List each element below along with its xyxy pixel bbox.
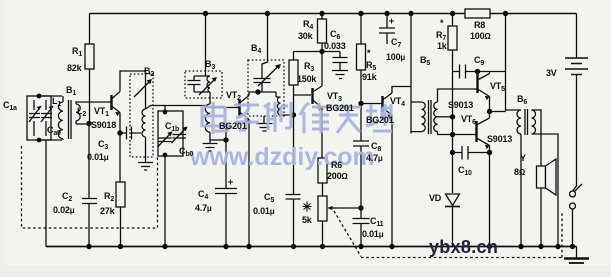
svg-text:0.01μ: 0.01μ <box>87 152 109 162</box>
svg-text:B3: B3 <box>205 59 215 71</box>
svg-text:8Ω: 8Ω <box>514 167 526 177</box>
transformer B6 primary winding <box>506 110 522 134</box>
svg-text:C10: C10 <box>458 165 472 177</box>
node C5 ground dot <box>291 244 296 249</box>
capacitor C5 0.01u <box>286 188 301 247</box>
node secondary return ground dot <box>555 244 560 249</box>
inductor B3 lower winding <box>205 104 210 140</box>
node speaker ground dot <box>538 244 543 249</box>
transformer B3 IF shield (dashed) <box>185 71 222 98</box>
transistor VT3 BG201 <box>313 86 323 111</box>
wire B5 secondary center tap <box>438 116 453 118</box>
node top rail dot B4 feed <box>265 11 270 16</box>
transformer B1 core <box>69 100 72 139</box>
transistor VT6 S9013 <box>477 118 490 149</box>
wire VT3 emitter down to R6 <box>321 108 323 159</box>
svg-text:200Ω: 200Ω <box>327 171 348 181</box>
wire rail down to B6 <box>505 14 507 112</box>
node B4 to R3 column dot <box>291 112 296 117</box>
node VD center-tap dot <box>450 114 455 119</box>
dashed gang link C1a-C1b <box>22 146 158 228</box>
node emitter/C3 junction dot <box>117 130 122 135</box>
svg-text:*: * <box>440 18 444 28</box>
wire rail down into B3 <box>205 14 207 77</box>
inductor B4 winding <box>276 92 294 115</box>
transistor VT1 S9018 <box>112 92 121 117</box>
wire B3 bottom to C4 node <box>210 139 226 141</box>
node C10 left dot <box>450 150 455 155</box>
wire tank bottom down to ground rail (left end) <box>45 140 47 247</box>
svg-text:BG201: BG201 <box>366 115 394 125</box>
ground below C6 <box>332 71 348 79</box>
svg-text:4.7μ: 4.7μ <box>366 153 383 163</box>
svg-text:L1: L1 <box>52 96 61 108</box>
svg-text:S9018: S9018 <box>91 120 116 130</box>
node R4 bottom dot <box>319 49 324 54</box>
node output node dot <box>487 109 492 114</box>
node top rail dot C7 feed <box>384 11 389 16</box>
node switch ground dot <box>570 244 575 249</box>
transformer B5 primary winding <box>411 102 425 132</box>
node C9/VT5 base dot <box>475 69 480 74</box>
wire R3 column down to C5 <box>293 115 295 188</box>
capacitor Ca0 trimmer <box>41 100 53 136</box>
svg-text:5k: 5k <box>302 215 313 225</box>
node VT6 emitter ground dot <box>487 244 492 249</box>
node C4 junction dot <box>223 137 228 142</box>
node C10 right dot <box>487 150 492 155</box>
resistor R2 27k <box>116 182 125 247</box>
resistor R4 30k <box>318 14 327 87</box>
wire VT1 emitter down <box>119 113 121 134</box>
wire VT5 collector join feed line <box>489 72 491 74</box>
svg-text:91k: 91k <box>362 72 378 82</box>
capacitor C11 0.01u <box>353 208 370 247</box>
svg-text:R3: R3 <box>304 61 314 73</box>
node VT4 emitter ground dot <box>389 244 394 249</box>
transformer B5 core <box>429 100 432 134</box>
potentiometer 5k <box>318 196 361 247</box>
inductor B2 winding <box>142 109 146 162</box>
wire bottom ground rail <box>46 246 577 248</box>
ground symbol bottom right <box>564 247 589 264</box>
svg-text:C1b: C1b <box>165 121 179 133</box>
svg-text:*: * <box>367 48 371 58</box>
node tank top dot <box>37 94 42 99</box>
resistor R3 150k <box>289 52 298 116</box>
svg-text:C4: C4 <box>198 189 208 201</box>
node wiper junction dot <box>358 205 363 210</box>
TEXT-LAYER <box>3 18 557 257</box>
capacitor C9 <box>453 65 506 79</box>
wire node to VT4 base <box>361 103 382 105</box>
node top rail dot R7 feed <box>450 11 455 16</box>
inductor L2 secondary of B1 <box>76 104 80 124</box>
adjustable-core arrow of B3 <box>199 77 217 95</box>
svg-text:C5: C5 <box>264 192 274 204</box>
label star pot (drawn) <box>303 202 312 212</box>
svg-text:C7: C7 <box>391 37 401 49</box>
transformer B4 IF shield (dashed) <box>248 60 284 116</box>
node VT2 emitter ground dot <box>246 244 251 249</box>
capacitor inside B4 (tuned primary) <box>254 79 271 93</box>
wire B3 through to lower winding <box>209 92 211 104</box>
capacitor C7 100u electrolytic <box>379 14 395 45</box>
node C1b ground dot <box>162 244 167 249</box>
resistor R7 1k <box>448 14 457 71</box>
wire base feed to VT3 <box>294 94 312 96</box>
node top rail dot R4 feed <box>319 11 324 16</box>
resistor R8 100ohm (in rail) <box>465 9 490 18</box>
transformer B5 secondary winding <box>434 102 438 132</box>
node pot ground dot <box>320 244 325 249</box>
transformer B6 core <box>525 109 528 135</box>
wire C4 node stub up <box>225 128 227 140</box>
wire junction to VT2 collector <box>249 91 276 93</box>
node top rail dot B5 feed <box>408 11 413 16</box>
wire L2 bottom to bias node <box>76 123 89 125</box>
svg-text:R5: R5 <box>366 60 376 72</box>
svg-text:30k: 30k <box>298 31 314 41</box>
svg-text:B5: B5 <box>420 55 430 67</box>
svg-text:0.033: 0.033 <box>324 41 346 51</box>
capacitor C3 0.01u <box>120 127 141 140</box>
wire B5 secondary bottom to VT6 base <box>438 132 477 135</box>
svg-text:L2: L2 <box>77 106 86 118</box>
svg-text:BG201: BG201 <box>326 103 354 113</box>
svg-text:S9013: S9013 <box>448 100 473 110</box>
wire B2 tap to B3 (y=105) <box>146 106 206 110</box>
resistor R5 91k <box>357 14 366 142</box>
dashed link pot wiper to power switch <box>334 211 562 258</box>
svg-text:R8: R8 <box>474 20 485 30</box>
resistor R6 200ohm <box>318 158 327 196</box>
svg-text:VT2: VT2 <box>226 90 241 102</box>
inductor L1 primary of B1 <box>58 96 63 140</box>
watermark line1 (stylized characters) <box>202 102 394 134</box>
node top rail dot B6 feed <box>503 11 508 16</box>
node bias junction dot (R1/L2/C2) <box>86 121 91 126</box>
wire VT5 emitter down to output node <box>489 97 491 119</box>
speaker Y 8ohm <box>537 159 557 195</box>
svg-text:C6: C6 <box>330 29 340 41</box>
node top rail dot R5 feed <box>358 11 363 16</box>
svg-text:100μ: 100μ <box>386 52 405 62</box>
WIRES-RAILS <box>46 14 577 247</box>
svg-text:VT3: VT3 <box>327 91 342 103</box>
wire output node to B6 column <box>490 111 506 113</box>
wire VT1 collector up and over to B2 <box>120 71 146 109</box>
wire rail down into B4 <box>262 14 268 79</box>
svg-text:B6: B6 <box>517 94 527 106</box>
svg-text:C11: C11 <box>370 216 384 228</box>
svg-text:C9: C9 <box>474 55 484 67</box>
node VD base-line crossing dot <box>450 132 455 137</box>
svg-text:27k: 27k <box>100 206 116 216</box>
node R2 ground dot <box>118 244 123 249</box>
svg-text:150k: 150k <box>297 74 317 84</box>
svg-text:B1: B1 <box>66 85 76 97</box>
MID-SECTION <box>185 11 562 258</box>
inductor inside B3 <box>207 76 210 92</box>
svg-text:VT1: VT1 <box>94 106 109 118</box>
adjustable-core arrow of B2 <box>134 79 152 97</box>
transistor VT5 S9013 <box>478 72 490 101</box>
svg-text:ybx8.cn: ybx8.cn <box>429 237 498 257</box>
svg-text:0.02μ: 0.02μ <box>53 205 75 215</box>
svg-text:VD: VD <box>429 193 442 203</box>
wire B6 secondary bottom to right <box>532 134 559 247</box>
wire rail down to B5 primary top <box>410 14 412 134</box>
ground below B2 <box>138 163 153 171</box>
node top-left corner wire from rail into R1 <box>89 14 91 45</box>
ground below B4 (shield) <box>257 116 273 131</box>
svg-text:VT5: VT5 <box>490 81 505 93</box>
svg-text:1k: 1k <box>437 41 448 51</box>
LEFT-SECTION <box>22 14 206 250</box>
capacitor C8 4.7u <box>353 141 369 208</box>
svg-text:R1: R1 <box>72 46 82 58</box>
svg-text:R4: R4 <box>303 19 313 31</box>
ground below B3 <box>203 140 218 151</box>
wire top supply rail <box>90 13 577 15</box>
resistor R1 82k <box>85 44 94 123</box>
capacitor inside B3 <box>188 76 211 92</box>
wire B6 primary bottom to rail <box>520 134 522 247</box>
svg-text:0.01μ: 0.01μ <box>362 229 384 239</box>
wire L2 top to VT1 base <box>76 102 111 104</box>
svg-text:4.7μ: 4.7μ <box>195 203 212 213</box>
svg-text:BG201: BG201 <box>219 121 247 131</box>
capacitor C1b variable (tuning gang b) <box>158 106 184 158</box>
wire B5 secondary top to VT5 base <box>438 89 478 102</box>
node tank bottom dot <box>37 138 42 143</box>
svg-text:VT6: VT6 <box>461 114 476 126</box>
wire VT6 emitter down to rail <box>489 146 491 247</box>
wire tank top to L1 <box>39 95 62 97</box>
svg-text:Y: Y <box>520 153 526 163</box>
svg-text:R2: R2 <box>104 191 114 203</box>
svg-text:R6: R6 <box>331 160 342 170</box>
transformer B2 oscillator coil shield (dashed) <box>130 74 153 157</box>
wire VT4 emitter down to rail <box>391 115 393 247</box>
capacitor C4 4.7u <box>215 140 237 247</box>
node B6 primary ground dot <box>518 244 523 249</box>
node C2 ground dot <box>86 244 91 249</box>
wire B6 secondary top to speaker <box>532 110 542 247</box>
adjustable-core arrow of B4 <box>258 64 281 86</box>
transistor VT2 BG201 <box>240 96 250 124</box>
svg-text:82k: 82k <box>67 63 83 73</box>
wire node to C6 <box>322 51 340 53</box>
transformer B6 secondary winding <box>532 110 536 134</box>
wire VT2 emitter down to rail <box>248 120 250 247</box>
capacitor C10 <box>453 146 490 160</box>
capacitor C6 0.033 <box>333 52 348 71</box>
node R5/VT4 base junction dot <box>358 101 363 106</box>
svg-text:S9013: S9013 <box>487 134 512 144</box>
svg-text:C3: C3 <box>98 139 108 151</box>
switch S (power) <box>570 184 583 247</box>
transistor VT4 BG201 <box>383 93 393 119</box>
node B4 junction dot <box>255 89 260 94</box>
battery 3V <box>565 14 588 192</box>
svg-text:3V: 3V <box>546 68 557 78</box>
RIGHT-SECTION <box>448 9 589 263</box>
node C4 ground dot <box>223 244 228 249</box>
wire emitter down to R2 <box>119 133 121 182</box>
wire tank bottom to L1 <box>39 139 62 141</box>
node top rail dot B3 feed <box>203 11 208 16</box>
wire VT4 collector up to B5 primary <box>392 87 411 94</box>
diode VD <box>445 70 460 247</box>
wire node to R3 <box>294 51 323 53</box>
wire C1b bottom to ground rail <box>164 156 166 247</box>
capacitor C1a variable (tuning gang a) <box>27 96 51 140</box>
wire B3 secondary to VT2 base <box>210 107 239 109</box>
svg-text:C2: C2 <box>62 191 72 203</box>
svg-text:B4: B4 <box>251 43 261 55</box>
capacitor C2 0.02u <box>82 124 97 247</box>
node C11 ground dot <box>358 244 363 249</box>
svg-text:www.dzdiy.com: www.dzdiy.com <box>189 143 375 171</box>
wire VT2 collector up to B4 <box>248 92 250 96</box>
svg-text:0.01μ: 0.01μ <box>253 206 275 216</box>
svg-text:100Ω: 100Ω <box>470 31 491 41</box>
capacitor Cb0 trimmer <box>172 127 188 144</box>
